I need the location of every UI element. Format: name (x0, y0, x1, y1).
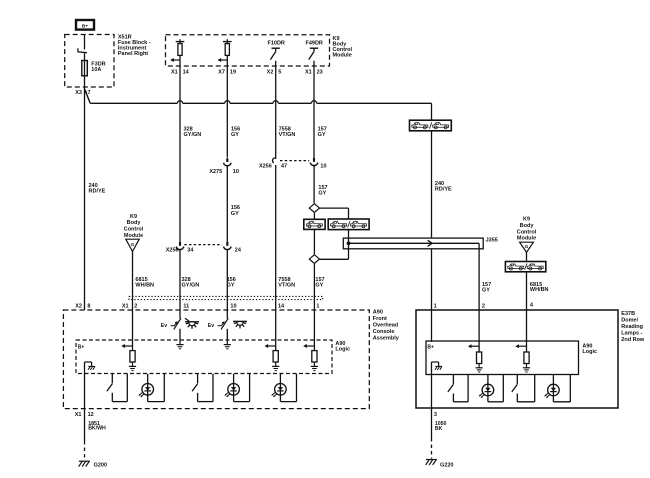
svg-text:34: 34 (187, 248, 194, 254)
svg-text:Body: Body (520, 223, 535, 229)
svg-text:WH/BN: WH/BN (530, 287, 549, 293)
svg-text:B+: B+ (427, 344, 434, 350)
svg-text:1: 1 (434, 303, 437, 309)
svg-text:X1: X1 (171, 69, 178, 75)
svg-text:X1: X1 (75, 412, 82, 418)
svg-text:BK: BK (435, 426, 443, 432)
svg-text:VT/GN: VT/GN (278, 282, 295, 288)
svg-text:10A: 10A (91, 67, 101, 73)
svg-text:X256: X256 (166, 248, 179, 254)
svg-text:X2: X2 (267, 69, 274, 75)
svg-text:GY: GY (318, 190, 326, 196)
svg-text:2: 2 (482, 303, 485, 309)
svg-text:Control: Control (124, 227, 144, 233)
svg-text:Ev: Ev (208, 323, 214, 329)
svg-text:Module: Module (517, 236, 536, 242)
svg-text:E37B: E37B (621, 311, 635, 317)
svg-text:GY/GN: GY/GN (184, 132, 202, 138)
svg-text:WH/BN: WH/BN (135, 282, 154, 288)
svg-text:K9: K9 (130, 214, 137, 220)
svg-text:Body: Body (127, 220, 142, 226)
svg-text:10: 10 (230, 303, 236, 309)
svg-text:GY: GY (482, 287, 490, 293)
svg-text:X7: X7 (218, 69, 225, 75)
svg-text:Logic: Logic (582, 349, 597, 355)
svg-text:Panel Right: Panel Right (118, 51, 148, 57)
svg-text:GY/GN: GY/GN (182, 282, 200, 288)
svg-text:2: 2 (134, 303, 137, 309)
svg-text:GY: GY (231, 132, 239, 138)
svg-text:7: 7 (88, 90, 91, 96)
svg-text:19: 19 (230, 69, 236, 75)
svg-text:Module: Module (124, 233, 143, 239)
svg-text:Assembly: Assembly (373, 336, 400, 342)
svg-text:1: 1 (316, 303, 319, 309)
svg-text:Overhead: Overhead (373, 323, 398, 329)
svg-text:Control: Control (517, 229, 537, 235)
svg-text:14: 14 (183, 69, 190, 75)
svg-text:5: 5 (278, 69, 281, 75)
svg-text:Front: Front (373, 316, 387, 322)
svg-text:10: 10 (233, 169, 239, 175)
svg-text:X3: X3 (75, 90, 82, 96)
svg-text:GY: GY (315, 282, 323, 288)
svg-text:3: 3 (434, 412, 437, 418)
svg-text:Logic: Logic (335, 347, 350, 353)
svg-text:G: G (131, 242, 135, 248)
svg-text:A90: A90 (373, 310, 383, 316)
svg-text:RD/YE: RD/YE (435, 186, 452, 192)
svg-text:B+: B+ (82, 24, 88, 30)
svg-text:RD/YE: RD/YE (89, 189, 106, 195)
svg-text:K9: K9 (523, 217, 530, 223)
svg-text:GY: GY (231, 211, 239, 217)
svg-text:G220: G220 (440, 463, 453, 469)
svg-text:2nd Row: 2nd Row (621, 337, 645, 343)
svg-text:Ev: Ev (161, 323, 167, 329)
svg-text:10: 10 (320, 163, 326, 169)
svg-text:GY: GY (318, 132, 326, 138)
svg-text:BK/WH: BK/WH (88, 426, 106, 432)
svg-text:47: 47 (281, 163, 287, 169)
svg-text:24: 24 (235, 248, 242, 254)
svg-text:23: 23 (317, 69, 323, 75)
svg-text:X275: X275 (209, 169, 222, 175)
svg-text:F49DR: F49DR (305, 40, 322, 46)
svg-text:X1: X1 (305, 69, 312, 75)
svg-text:Dome/: Dome/ (621, 318, 638, 324)
svg-text:8: 8 (87, 303, 90, 309)
svg-text:G200: G200 (94, 462, 107, 468)
svg-text:Reading: Reading (621, 324, 643, 330)
svg-text:GY: GY (227, 282, 235, 288)
svg-text:X2: X2 (75, 303, 82, 309)
svg-text:X256: X256 (259, 163, 272, 169)
svg-text:X1: X1 (122, 303, 129, 309)
svg-text:VT/GN: VT/GN (279, 132, 296, 138)
svg-text:11: 11 (183, 303, 189, 309)
svg-text:B+: B+ (78, 345, 85, 351)
svg-text:G: G (525, 244, 529, 250)
svg-text:F10DR: F10DR (267, 40, 284, 46)
svg-text:Lamps -: Lamps - (621, 331, 642, 337)
svg-text:12: 12 (88, 412, 94, 418)
svg-text:J355: J355 (486, 238, 498, 244)
svg-text:Module: Module (333, 52, 352, 58)
svg-text:Console: Console (373, 329, 395, 335)
svg-text:14: 14 (278, 303, 285, 309)
